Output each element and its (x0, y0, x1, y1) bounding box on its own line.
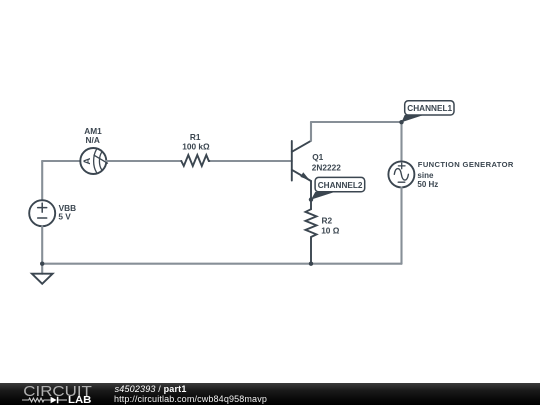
wire: main horizontal from VBB top corner to ammeter (42, 160, 80, 162)
wire: Q1 collector up (310, 122, 312, 141)
label function generator frequency 50 Hz (417, 180, 438, 189)
label VBB name (59, 203, 77, 213)
function generator V1 (388, 161, 414, 187)
wire: VBB bottom vertical (41, 226, 43, 264)
wire: R2 to bottom rail (310, 239, 312, 264)
svg-text:N/A: N/A (86, 135, 100, 145)
svg-text:Q1: Q1 (312, 152, 323, 162)
svg-text:FUNCTION GENERATOR: FUNCTION GENERATOR (418, 160, 514, 169)
label AM1 value N/A (86, 135, 100, 145)
wire: Q1 emitter down to CHANNEL2 node (310, 181, 312, 209)
label VBB value 5 V (58, 212, 71, 222)
svg-text:LAB: LAB (68, 396, 91, 406)
wire: function generator to bottom rail (400, 187, 402, 263)
node: junction dot R2 bottom (309, 262, 313, 266)
label R1 name (190, 132, 201, 142)
label Q1 value 2N2222 (312, 162, 341, 172)
label function generator name (418, 160, 514, 169)
transistor Q1 (292, 141, 311, 181)
label R2 value 10 Ohm (321, 226, 340, 236)
footer url (114, 394, 267, 404)
CircuitLab logo (22, 384, 92, 406)
label R2 name (322, 216, 333, 226)
svg-text:A: A (82, 158, 93, 165)
node CHANNEL2 flag (311, 177, 365, 199)
wire: VBB top vertical (41, 161, 43, 200)
wire: ammeter to R1 (106, 160, 181, 162)
svg-text:CHANNEL1: CHANNEL1 (407, 103, 452, 113)
svg-text:R2: R2 (322, 216, 333, 226)
wire: bottom rail (42, 263, 401, 265)
node: junction dot at CHANNEL1 tap (399, 120, 403, 124)
label function generator type sine (417, 171, 434, 180)
wire: R1 to Q1 base (211, 160, 292, 162)
label R1 value 100 kOhm (182, 141, 210, 151)
svg-text:100 kΩ: 100 kΩ (182, 141, 210, 151)
svg-text:2N2222: 2N2222 (312, 162, 341, 172)
ammeter AM1 (80, 148, 107, 174)
footer credit line (115, 384, 187, 394)
ground (32, 264, 53, 284)
resistor R1 (181, 155, 211, 166)
svg-text:5 V: 5 V (58, 212, 71, 222)
svg-text:10 Ω: 10 Ω (321, 226, 340, 236)
voltage source VBB (29, 200, 55, 226)
node: junction dot at CHANNEL2 tap (309, 197, 313, 201)
wire: CHANNEL1 corner down to function generator (400, 122, 402, 161)
footer bar (0, 383, 540, 405)
wire: top horizontal to function generator (311, 121, 402, 123)
label AM1 name (84, 126, 102, 136)
node: junction dot at ground (40, 262, 44, 266)
node CHANNEL1 flag (402, 101, 455, 122)
label Q1 name (312, 152, 323, 162)
resistor R2 (306, 209, 317, 239)
svg-text:CHANNEL2: CHANNEL2 (318, 180, 363, 190)
svg-text:50 Hz: 50 Hz (417, 180, 438, 189)
